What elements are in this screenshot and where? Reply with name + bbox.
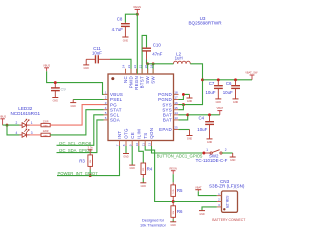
wire R2 to STAT <box>50 110 103 135</box>
wire SDA <box>57 120 104 153</box>
svg-text:R6: R6 <box>177 209 183 214</box>
resistor R4 <box>141 163 153 183</box>
svg-text:22: 22 <box>133 65 137 69</box>
junction dot C9 <box>54 81 57 84</box>
resistor R2 (bottom) <box>41 130 50 137</box>
svg-text:47nF: 47nF <box>152 51 162 56</box>
U3 right pin stubs <box>174 94 179 129</box>
svg-text:1uH: 1uH <box>175 56 183 61</box>
svg-text:S3B-ZR (LF)(SN): S3B-ZR (LF)(SN) <box>209 184 245 189</box>
svg-text:S3B-ZR: S3B-ZR <box>225 196 229 209</box>
svg-text:10uF: 10uF <box>197 127 207 132</box>
svg-text:GND: GND <box>123 39 129 42</box>
svg-text:10k Thermistor: 10k Thermistor <box>140 222 167 227</box>
svg-text:C6: C6 <box>226 81 232 86</box>
wire TS to thermistor node <box>145 146 173 202</box>
svg-text:1: 1 <box>206 148 208 152</box>
power flag REGN thermistor <box>169 166 177 185</box>
wire EPAD to ground <box>179 129 190 131</box>
svg-text:C7: C7 <box>209 81 215 86</box>
svg-text:15: 15 <box>174 106 178 110</box>
connector CN3 body <box>222 191 238 212</box>
ground R6 <box>170 222 176 227</box>
wire BTST hook <box>142 35 146 74</box>
svg-text:4: 4 <box>16 131 18 135</box>
svg-text:BTST: BTST <box>140 76 145 88</box>
capacitor C10 <box>142 42 162 64</box>
wire SW pin risers <box>147 64 149 74</box>
junction dot C4 <box>208 113 211 116</box>
svg-text:10: 10 <box>135 143 139 147</box>
svg-text:GND: GND <box>171 224 177 227</box>
wire SYS cap rail <box>203 79 253 81</box>
svg-text:REGN: REGN <box>134 76 139 90</box>
power flag VBUS left <box>43 63 50 71</box>
wire OTG to ground <box>125 146 127 153</box>
wire VBUS flag to VBUS pin <box>47 71 104 94</box>
U3 right pin numbers <box>174 91 178 130</box>
switch SW2 <box>196 148 233 163</box>
svg-text:220R: 220R <box>43 130 49 133</box>
svg-text:GND: GND <box>71 105 77 108</box>
svg-text:GND: GND <box>207 141 213 144</box>
CN3 pin stubs <box>217 196 222 207</box>
U3 bottom pin numbers <box>116 143 152 147</box>
U3 left pin names <box>110 92 123 123</box>
svg-text:VBAT: VBAT <box>195 185 202 189</box>
LED D1 (top, green) <box>20 119 30 128</box>
U3 left pin stubs <box>104 94 109 120</box>
svg-text:BQ25898RTWR: BQ25898RTWR <box>188 20 222 25</box>
power flag VBAT at CN3 <box>195 185 202 191</box>
resistor R3 <box>79 155 92 176</box>
ground EPAD <box>187 130 193 141</box>
svg-text:SW: SW <box>145 75 150 83</box>
svg-text:23: 23 <box>127 65 131 69</box>
capacitor C9 <box>51 83 66 98</box>
wire C11 to PMID pin <box>110 59 131 74</box>
junction dot REGN net <box>136 13 139 16</box>
inductor L2 <box>174 51 191 63</box>
svg-text:OTG: OTG <box>124 128 129 139</box>
svg-text:20: 20 <box>144 65 148 69</box>
svg-text:16: 16 <box>174 101 178 105</box>
U3 bottom pin stubs <box>120 141 152 147</box>
wire BAT rail <box>188 114 220 116</box>
wire BAT pins join <box>179 115 188 120</box>
svg-text:2: 2 <box>16 121 18 125</box>
ground below C7 <box>215 99 221 104</box>
capacitor C6 <box>223 80 240 99</box>
junction dot LED supply <box>6 124 9 127</box>
power flag REGN top <box>134 5 142 13</box>
svg-text:GND: GND <box>233 101 239 104</box>
resistor R6 <box>171 202 183 222</box>
capacitor C7 <box>205 80 222 99</box>
U3 top pin stubs <box>126 69 154 74</box>
wire SCL <box>57 115 104 146</box>
svg-text:19: 19 <box>149 65 153 69</box>
CN3 pin numbers <box>218 192 220 207</box>
svg-text:13: 13 <box>174 116 178 120</box>
power flag VBAT <box>217 106 224 115</box>
svg-text:21: 21 <box>138 65 142 69</box>
wire LED1 to R1 <box>30 124 42 126</box>
wire PGND pins to ground <box>179 94 190 99</box>
junction dot SYS branch <box>201 78 204 81</box>
U3 left pin numbers <box>105 91 107 121</box>
svg-text:11: 11 <box>141 143 145 146</box>
ground CN3 <box>199 211 205 216</box>
ground below C9 <box>52 98 58 103</box>
U3 top pin numbers <box>122 65 154 69</box>
svg-text:TS: TS <box>143 132 148 138</box>
junction dots SYS pins <box>182 103 185 106</box>
svg-text:PMID: PMID <box>128 76 133 88</box>
wire thermistor node to CN3 pin2 <box>173 201 221 203</box>
wire LED2 to R2 <box>30 134 42 136</box>
svg-text:SDA: SDA <box>110 118 120 123</box>
svg-text:CE: CE <box>130 132 135 139</box>
LED D2 (bottom, red) <box>20 129 30 138</box>
U3 bottom pin names <box>117 128 154 139</box>
power flag VBAT_SW right <box>245 71 258 80</box>
svg-text:GND: GND <box>84 67 90 70</box>
svg-text:17: 17 <box>174 96 178 100</box>
svg-text:QON: QON <box>149 128 154 139</box>
wire CN3 pin1 to VBAT flag <box>198 191 217 195</box>
svg-text:GND: GND <box>230 159 236 162</box>
ground left of C11 <box>83 59 89 70</box>
svg-text:GND: GND <box>141 185 147 188</box>
svg-text:R4: R4 <box>147 166 153 171</box>
ground SW2 <box>230 153 236 162</box>
wire VBUS riser from flag dot down to REGN pin <box>136 14 138 74</box>
junction dot POWER_INT <box>89 174 92 177</box>
ground PSEL <box>70 100 76 108</box>
svg-text:10uF: 10uF <box>92 51 102 56</box>
wire ILIM to R4 <box>139 146 144 163</box>
svg-text:BAT: BAT <box>163 118 172 123</box>
ground below C6 <box>233 99 239 104</box>
svg-text:GND: GND <box>123 155 129 158</box>
svg-text:SW: SW <box>151 75 156 83</box>
svg-text:18: 18 <box>174 91 178 95</box>
resistor R1 (top) <box>41 120 50 127</box>
svg-text:12: 12 <box>148 143 152 147</box>
ground below C4 <box>207 139 213 144</box>
svg-text:VBAT_SW: VBAT_SW <box>245 71 258 75</box>
svg-text:2: 2 <box>225 148 227 152</box>
power flag 3.3v <box>88 146 94 155</box>
capacitor C8 <box>112 17 130 37</box>
svg-text:BATTERY CONNECT: BATTERY CONNECT <box>212 218 245 222</box>
svg-text:VBUS: VBUS <box>0 114 6 118</box>
svg-text:R5: R5 <box>177 188 183 193</box>
svg-text:C10: C10 <box>153 42 162 47</box>
svg-text:GND: GND <box>199 213 205 216</box>
svg-text:4.7uF: 4.7uF <box>112 27 124 32</box>
svg-text:VBUS: VBUS <box>43 63 50 67</box>
svg-text:NC: NC <box>123 76 128 83</box>
wire QON to SW2 <box>152 146 204 153</box>
note Designed for 10k Thermistor <box>140 217 167 227</box>
capacitor C11 <box>86 46 110 63</box>
resistor R5 <box>171 185 183 202</box>
svg-text:POWER_INT_GPIO7: POWER_INT_GPIO7 <box>58 171 99 176</box>
svg-text:RES: RES <box>44 135 49 137</box>
wire LED bottom row branch <box>7 125 20 135</box>
svg-text:GND: GND <box>187 138 193 141</box>
svg-text:NCD1615RG1: NCD1615RG1 <box>10 111 40 116</box>
U3 right pin names <box>158 92 172 132</box>
svg-text:14: 14 <box>174 111 178 115</box>
svg-text:C4: C4 <box>198 116 204 121</box>
svg-text:TC-1101DE-C-F: TC-1101DE-C-F <box>196 158 228 163</box>
svg-text:24: 24 <box>122 65 126 69</box>
svg-text:VBAT: VBAT <box>217 106 224 110</box>
junction dot BAT <box>186 113 189 116</box>
wire PSEL to ground <box>73 99 103 101</box>
svg-text:10uF: 10uF <box>205 90 215 95</box>
junction dot SW2 pin1 <box>202 152 205 155</box>
capacitor C4 <box>197 115 214 139</box>
svg-text:INT: INT <box>117 131 122 139</box>
svg-text:GND: GND <box>53 100 59 103</box>
ground CE <box>129 165 135 170</box>
svg-text:ILIM: ILIM <box>136 129 141 139</box>
ground PGND <box>187 94 193 103</box>
wire R1 to PG (red net) <box>50 105 103 126</box>
power flag LED anode <box>0 114 6 125</box>
svg-text:GND: GND <box>216 101 222 104</box>
svg-text:GND: GND <box>187 100 193 103</box>
wire REGN flag to C8 <box>125 13 137 22</box>
wire SW net to L2 <box>147 63 174 65</box>
ground below C8 <box>122 37 128 42</box>
wire CN3 pin3 to ground <box>202 207 217 211</box>
svg-text:REGN: REGN <box>169 166 177 170</box>
svg-text:GND: GND <box>130 167 136 170</box>
junction dot C7 <box>217 78 220 81</box>
svg-text:R3: R3 <box>79 158 85 163</box>
ground R4 <box>140 183 146 188</box>
junction dot thermistor node <box>172 200 175 203</box>
junction dot C6 <box>234 78 237 81</box>
svg-text:25: 25 <box>174 126 178 130</box>
ground OTG <box>123 154 129 159</box>
svg-text:EPAD: EPAD <box>159 127 172 132</box>
svg-text:3.3v: 3.3v <box>88 146 94 150</box>
svg-text:C9: C9 <box>61 87 67 92</box>
junction dot PGND <box>182 93 185 96</box>
svg-text:REGN: REGN <box>134 5 142 9</box>
wire CE to ground <box>131 146 133 165</box>
U3 top pin names <box>123 75 156 89</box>
IC U3 body <box>108 74 174 141</box>
svg-text:220R: 220R <box>43 120 49 123</box>
wire LED top row anode <box>3 124 20 126</box>
wire L2 to SYS node <box>183 64 202 105</box>
svg-text:RES: RES <box>44 126 49 128</box>
wire SYS pins join <box>179 105 184 110</box>
wire POWER_INT net <box>57 146 120 176</box>
junction dots SW net <box>146 62 149 65</box>
svg-text:10uF: 10uF <box>223 90 233 95</box>
svg-text:C8: C8 <box>117 17 123 22</box>
